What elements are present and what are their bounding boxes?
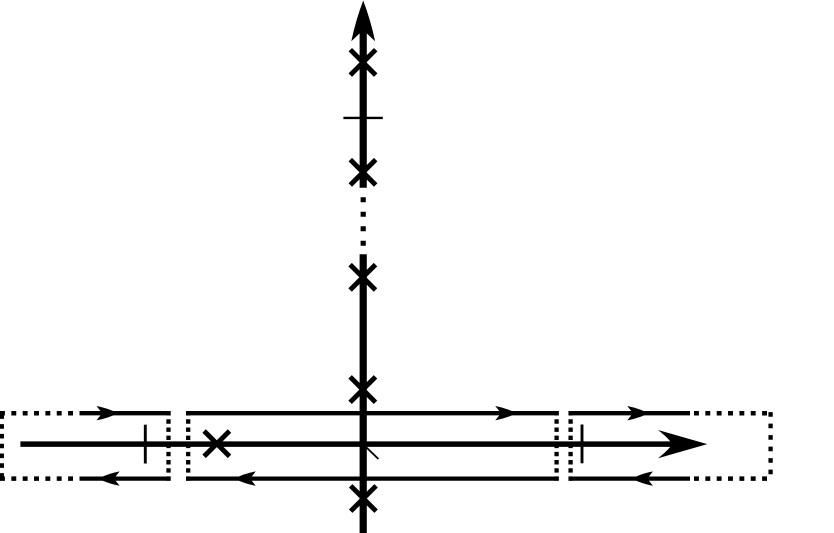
pole X3 on imaginary axis [350, 265, 375, 290]
imaginary axis upper shaft [360, 20, 367, 188]
contour box C1 bottom side dotted segment [0, 476, 75, 481]
contour box C1 right edge (dotted vertical) [166, 411, 170, 481]
contour box C1 leftward arrow on bottom side [98, 471, 120, 485]
contour box C2 rightward arrow on top side [495, 406, 517, 420]
imaginary axis dotted ellipsis segment [361, 197, 366, 247]
pole X5 on imaginary axis below real axis [351, 486, 376, 511]
contour box C1 (left), top side dotted segment [0, 411, 75, 416]
tick on real axis (left) [144, 425, 147, 464]
contour box C3 (right) left edge (dotted vertical) [568, 411, 572, 481]
real axis arrowhead [658, 430, 707, 458]
contour box C2 right edge (dotted vertical) [554, 411, 558, 481]
contour box C3 right edge (dotted vertical) [768, 412, 772, 475]
pole X2 on imaginary axis [350, 160, 375, 185]
imaginary axis arrowhead [351, 1, 375, 42]
tick on imaginary axis [343, 117, 382, 119]
imaginary axis lower shaft [360, 254, 367, 533]
contour box C3 bottom side dotted segment [694, 476, 773, 481]
contour box C2 leftward arrow on bottom side [234, 471, 256, 485]
contour box C2 bottom side [186, 476, 559, 480]
tick on real axis (right) [581, 425, 584, 464]
contour box C3 top side solid segment [569, 411, 691, 415]
pole X6 on real axis [204, 431, 229, 456]
contour box C3 rightward arrow on top side [627, 406, 649, 420]
small diagonal mark at origin [367, 448, 379, 460]
contour box C1 top side solid segment [80, 411, 171, 415]
contour box C2 top side [186, 411, 559, 415]
real axis shaft [20, 441, 674, 447]
contour box C2 (middle) left edge (dotted vertical) [186, 411, 190, 481]
contour box C1 left edge (dotted vertical) [0, 414, 4, 478]
pole X1 on imaginary axis [350, 50, 375, 75]
contour box C3 leftward arrow on bottom side [631, 471, 653, 485]
contour box C3 bottom side solid segment [569, 476, 691, 480]
contour box C3 top side dotted segment [694, 411, 773, 416]
contour box C1 bottom side solid segment [80, 476, 171, 480]
pole X4 on imaginary axis [350, 377, 375, 402]
contour box C1 rightward arrow on top side [97, 406, 119, 420]
